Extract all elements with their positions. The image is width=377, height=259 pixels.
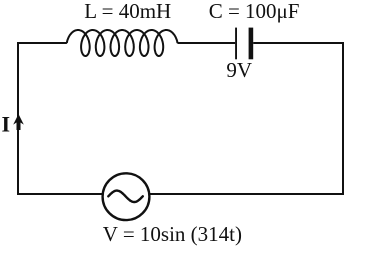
svg-text:I: I	[2, 111, 11, 136]
svg-text:C = 100μF: C = 100μF	[209, 0, 300, 23]
svg-text:9V: 9V	[226, 58, 252, 82]
svg-text:L = 40mH: L = 40mH	[84, 0, 171, 23]
svg-text:V = 10sin (314t): V = 10sin (314t)	[103, 222, 242, 246]
